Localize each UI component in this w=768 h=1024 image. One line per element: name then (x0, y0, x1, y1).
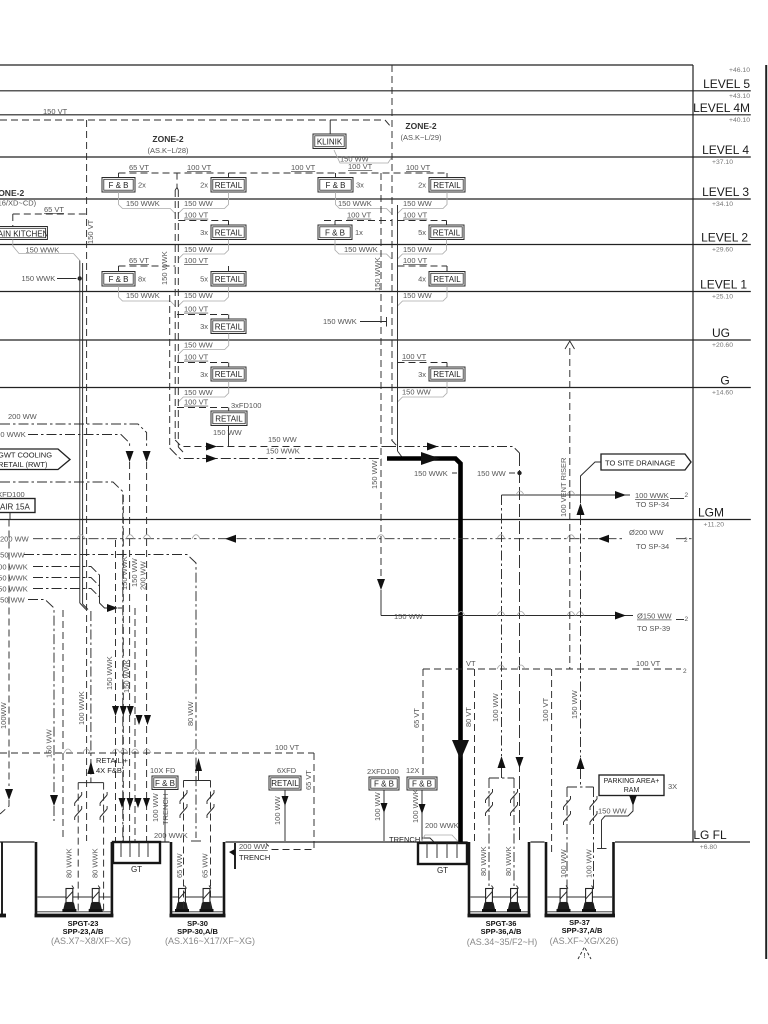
svg-text:RETAIL: RETAIL (215, 322, 243, 331)
svg-text:3x: 3x (200, 370, 208, 379)
svg-text:MAIN KITCHEN: MAIN KITCHEN (0, 230, 49, 239)
svg-text:65 WW: 65 WW (201, 852, 210, 878)
svg-text:+11.20: +11.20 (704, 522, 725, 529)
svg-text:SPP-36,A/B: SPP-36,A/B (481, 927, 522, 936)
svg-text:+14.60: +14.60 (712, 390, 733, 397)
svg-text:+34.10: +34.10 (712, 201, 733, 208)
svg-text:80 WWK: 80 WWK (65, 848, 74, 878)
svg-text:100 WWK: 100 WWK (411, 789, 420, 823)
svg-text:4X F&B: 4X F&B (96, 766, 122, 775)
svg-text:150 WWK: 150 WWK (126, 291, 160, 300)
svg-text:!: ! (583, 951, 585, 960)
svg-text:ZONE-2: ZONE-2 (152, 134, 183, 144)
bundle riser a (115, 540, 117, 842)
svg-text:100 VT: 100 VT (187, 163, 212, 172)
svg-text:100 VT: 100 VT (406, 163, 431, 172)
level line LEVEL 2 (0, 244, 751, 246)
box RETAIL row E (211, 367, 246, 381)
warning triangle (578, 947, 591, 959)
svg-text:LEVEL 3: LEVEL 3 (702, 185, 749, 199)
label 150 WW under row A (398, 192, 448, 214)
svg-text:150 WWK: 150 WWK (105, 656, 114, 690)
svg-text:(AS.K~L/28): (AS.K~L/28) (147, 146, 189, 155)
svg-text:100 VT: 100 VT (184, 211, 209, 220)
svg-text:150 WW: 150 WW (184, 341, 214, 350)
svg-text:F & B: F & B (412, 780, 432, 789)
svg-text:RETAIL +: RETAIL + (96, 756, 129, 765)
svg-text:150 WWK: 150 WWK (120, 556, 129, 590)
svg-text:F & B: F & B (325, 228, 345, 237)
svg-text:TRENCH: TRENCH (389, 835, 420, 844)
pit2 riser arrow (195, 758, 202, 771)
pit walls x467.5 (468, 842, 471, 916)
svg-text:2: 2 (684, 537, 688, 544)
svg-text:RETAIL (RWT): RETAIL (RWT) (0, 460, 48, 469)
svg-text:TO SP-39: TO SP-39 (637, 624, 670, 633)
box RETAIL row B x211 (211, 225, 246, 240)
svg-text:150 WW: 150 WW (0, 596, 26, 605)
pipe vent branch row C left (119, 265, 176, 267)
svg-text:100 VT: 100 VT (541, 697, 550, 722)
svg-text:100 WW: 100 WW (585, 848, 594, 878)
level line G (0, 387, 751, 389)
riser 65 VT dashed (422, 669, 424, 777)
svg-text:150 WW: 150 WW (394, 612, 424, 621)
svg-text:+20.60: +20.60 (712, 342, 733, 349)
svg-text:6XFD100: 6XFD100 (0, 490, 25, 499)
svg-text:RETAIL: RETAIL (215, 181, 243, 190)
svg-text:(AS.34~35/F2~H): (AS.34~35/F2~H) (467, 937, 538, 947)
label 150 WW level conn row E (178, 334, 228, 355)
svg-text:TO SP-34: TO SP-34 (636, 500, 669, 509)
pipe vent branch row F (177, 407, 229, 409)
svg-text:65 VT: 65 VT (44, 205, 64, 214)
svg-text:LEVEL 2: LEVEL 2 (701, 231, 748, 245)
pit2 discharge header (184, 780, 211, 782)
pipe vent branch row B mid (178, 220, 228, 222)
svg-text:150 WW: 150 WW (477, 469, 507, 478)
svg-text:150 WWK: 150 WWK (122, 659, 131, 693)
svg-text:+46.10: +46.10 (729, 67, 750, 74)
bundle riser c (134, 608, 136, 842)
svg-text:150 WWK: 150 WWK (414, 469, 448, 478)
box RETAIL row C x211 (211, 272, 246, 287)
svg-text:150 WW: 150 WW (268, 435, 298, 444)
svg-text:80 WWK: 80 WWK (91, 848, 100, 878)
pump at x489 (486, 889, 493, 903)
svg-text:150 WWK: 150 WWK (0, 585, 28, 594)
svg-text:100 VT: 100 VT (348, 162, 373, 171)
svg-text:100 VT: 100 VT (184, 256, 209, 265)
svg-text:Ø150 WW: Ø150 WW (637, 612, 673, 621)
label 150 WWK under row B (335, 240, 392, 260)
svg-text:+25.10: +25.10 (712, 294, 733, 301)
svg-text:+43.10: +43.10 (729, 93, 750, 100)
pipe vent branch row E (177, 362, 229, 364)
vent loop to trench (266, 753, 314, 850)
svg-text:+40.10: +40.10 (729, 117, 750, 124)
svg-text:150 WW: 150 WW (0, 551, 26, 560)
svg-text:RETAIL: RETAIL (215, 414, 243, 423)
svg-text:100 VT: 100 VT (184, 353, 209, 362)
svg-text:200 WW: 200 WW (139, 560, 148, 590)
svg-text:TRENCH: TRENCH (161, 794, 170, 825)
svg-text:100 VT: 100 VT (402, 352, 427, 361)
svg-text:12X: 12X (406, 766, 419, 775)
riser 100 WW pit3 discharge (501, 495, 503, 756)
pump at x514 (511, 889, 518, 903)
pit1 riser 100 WWK up (90, 611, 92, 783)
svg-text:LG FL: LG FL (693, 828, 727, 842)
svg-text:G: G (720, 374, 729, 388)
trench marker pit2 (234, 843, 236, 869)
level line LEVEL 5 (0, 90, 751, 92)
svg-text:RETAIL: RETAIL (433, 181, 461, 190)
riser 80 VT dashed (474, 669, 476, 841)
pipe vent branch row C right (398, 265, 448, 267)
svg-text:100 WWK: 100 WWK (77, 691, 86, 725)
svg-text:+29.60: +29.60 (712, 247, 733, 254)
pump at x206.5 (203, 889, 210, 903)
svg-text:100 WWK: 100 WWK (0, 563, 28, 572)
svg-text:3x: 3x (356, 181, 364, 190)
pump at x182 (179, 889, 186, 903)
arrow down riser 200 WW (143, 451, 151, 462)
pump at x563.5 (560, 889, 567, 903)
trio merge arrow (100, 575, 111, 608)
svg-text:GT: GT (437, 866, 448, 875)
svg-text:10X FD: 10X FD (150, 766, 176, 775)
level line LEVEL 1 (0, 291, 751, 293)
svg-text:(AS.X16/XD~CD): (AS.X16/XD~CD) (0, 199, 37, 208)
pit walls x169.5 (170, 842, 173, 916)
svg-text:150 WW: 150 WW (213, 428, 243, 437)
svg-text:F & B: F & B (325, 181, 345, 190)
pipe vent branch row A (119, 172, 448, 174)
svg-text:2XFD100: 2XFD100 (367, 767, 399, 776)
pipe 150 WWK dash-dot to pit3 (386, 447, 520, 454)
riser stack pair right dashed (391, 65, 393, 440)
svg-text:150 VT: 150 VT (86, 219, 95, 244)
pipe 100 WWK to SP-34 (502, 494, 631, 496)
svg-text:80 WWK: 80 WWK (504, 846, 513, 876)
svg-text:GWT COOLING: GWT COOLING (0, 451, 52, 460)
svg-text:ZONE-2: ZONE-2 (0, 188, 24, 198)
svg-text:150 WW: 150 WW (184, 388, 214, 397)
banner TO SITE DRAINAGE (601, 454, 691, 470)
box F & B row A x318 (318, 178, 353, 193)
riser 150 VT dashed left (86, 120, 88, 841)
pipe vent branch row B right (324, 220, 392, 222)
svg-text:RETAIL: RETAIL (215, 370, 243, 379)
svg-text:100 VT: 100 VT (403, 211, 428, 220)
svg-text:(AS.X7~X8/XF~XG): (AS.X7~X8/XF~XG) (51, 936, 131, 946)
svg-text:5x: 5x (200, 275, 208, 284)
pump at x95.7 (92, 889, 99, 903)
svg-text:3x: 3x (200, 322, 208, 331)
frame right edge (765, 65, 767, 959)
riser stack pair mid dashed (174, 190, 176, 440)
box RETAIL row D (211, 319, 246, 334)
box RETAIL row C x429 (429, 272, 465, 287)
vent riser 100 dashed (569, 348, 571, 669)
svg-text:LGM: LGM (698, 506, 724, 520)
banner GWT COOLING RETAIL (RWT) (0, 449, 70, 470)
svg-text:150 WW: 150 WW (403, 245, 433, 254)
level line LEVEL 4 (0, 156, 751, 158)
svg-text:100 VT: 100 VT (403, 256, 428, 265)
box GT grease trap 2 (418, 843, 467, 864)
svg-text:F & B: F & B (108, 275, 128, 284)
svg-text:SPP-30,A/B: SPP-30,A/B (177, 927, 218, 936)
label 150 WW level conn row F (178, 381, 228, 402)
svg-text:PARKING AREA+: PARKING AREA+ (604, 778, 660, 785)
svg-text:RETAIL: RETAIL (433, 370, 461, 379)
svg-text:65 VT: 65 VT (129, 163, 149, 172)
svg-text:SPP-37,A/B: SPP-37,A/B (562, 926, 603, 935)
label 150 WWK under row A (119, 192, 176, 214)
label 150 WWK under row C (119, 286, 176, 306)
svg-text:150 WW: 150 WW (598, 807, 628, 816)
svg-text:4x: 4x (418, 275, 426, 284)
label 150 WW under row B (398, 240, 447, 260)
svg-text:AIR 15A: AIR 15A (0, 503, 30, 512)
svg-text:3x: 3x (200, 228, 208, 237)
svg-text:100WW: 100WW (0, 701, 8, 729)
svg-text:150 WW: 150 WW (370, 459, 379, 489)
svg-text:LEVEL 1: LEVEL 1 (700, 278, 747, 292)
pit edge-left partial (1, 842, 3, 916)
svg-text:RETAIL: RETAIL (215, 228, 243, 237)
svg-text:150 WW: 150 WW (184, 199, 214, 208)
svg-text:150 WWK: 150 WWK (323, 317, 357, 326)
label 150 WW under row C (398, 286, 448, 306)
svg-text:100 VT: 100 VT (184, 398, 209, 407)
thick arrow right (421, 452, 440, 465)
svg-text:LEVEL 5: LEVEL 5 (703, 77, 750, 91)
svg-text:200 WWK: 200 WWK (425, 821, 459, 830)
svg-text:100 VT: 100 VT (347, 211, 372, 220)
svg-text:TRENCH: TRENCH (239, 853, 270, 862)
svg-text:65 VT: 65 VT (304, 770, 313, 790)
riser pair kitchen solid (79, 261, 81, 604)
bundle arrows lower (119, 798, 126, 808)
svg-text:150 VT: 150 VT (43, 107, 68, 116)
box F & B row A x102 (102, 178, 135, 193)
svg-text:100 WWK: 100 WWK (635, 491, 669, 500)
svg-text:200 WW: 200 WW (8, 412, 38, 421)
svg-text:150 WWK: 150 WWK (22, 274, 56, 283)
svg-text:(AS.K~L/29): (AS.K~L/29) (400, 133, 442, 142)
pipe vent branch row B kitchen (13, 213, 87, 215)
label 150 WWK under row A (336, 192, 392, 214)
pit3 discharge header (489, 777, 514, 779)
svg-text:TO SITE DRAINAGE: TO SITE DRAINAGE (605, 459, 675, 468)
pipe 100 VT right run (423, 668, 681, 670)
svg-text:RETAIL: RETAIL (433, 275, 461, 284)
label 150 WW under row B (178, 240, 228, 260)
pipe vent branch row E right (398, 362, 448, 364)
svg-text:150 WWK: 150 WWK (126, 199, 160, 208)
svg-text:VT: VT (466, 659, 476, 668)
svg-text:SPP-23,A/B: SPP-23,A/B (63, 927, 104, 936)
svg-text:F & B: F & B (108, 181, 128, 190)
pipe 150 WW to SP-39 (381, 615, 633, 617)
svg-text:(AS.XF~XG/X26): (AS.XF~XG/X26) (550, 936, 619, 946)
frame boundary vertical (692, 65, 694, 842)
svg-text:150 WWK: 150 WWK (344, 245, 378, 254)
svg-text:5x: 5x (418, 228, 426, 237)
bundle arrows upper (112, 706, 119, 716)
pipe vent branch row D (177, 314, 229, 316)
thick arrow down (452, 740, 469, 760)
svg-text:150 WWK: 150 WWK (338, 199, 372, 208)
pipe 200 WW to SP-34 dash-dot (33, 538, 624, 540)
svg-text:2x: 2x (418, 181, 426, 190)
box GT grease trap 1 (113, 842, 160, 863)
svg-text:200 WW: 200 WW (0, 535, 30, 544)
label 150 WW under row E right (398, 381, 448, 402)
svg-text:3xFD100: 3xFD100 (231, 401, 261, 410)
box AIR 15A (0, 499, 35, 513)
box RETAIL row F (211, 411, 247, 426)
svg-text:6XFD: 6XFD (277, 766, 297, 775)
svg-text:200 WW: 200 WW (239, 842, 269, 851)
svg-text:TO SP-34: TO SP-34 (636, 542, 669, 551)
pit1 discharge header (78, 782, 103, 784)
svg-text:200 WWK: 200 WWK (154, 831, 188, 840)
svg-text:100 VT: 100 VT (291, 163, 316, 172)
site drainage riser (581, 462, 602, 503)
svg-text:80 WW: 80 WW (186, 700, 195, 726)
level line UG (0, 339, 751, 341)
box RETAIL row A x211 (211, 178, 246, 193)
svg-text:RETAIL: RETAIL (433, 228, 461, 237)
svg-text:UG: UG (712, 326, 730, 340)
svg-text:1x: 1x (355, 228, 363, 237)
svg-text:80 VT: 80 VT (464, 707, 473, 727)
svg-text:150 WWK: 150 WWK (0, 430, 26, 439)
riser 100WW far left (8, 520, 10, 787)
svg-text:F & B: F & B (155, 779, 175, 788)
box KLINIK (329, 120, 331, 134)
svg-text:GT: GT (131, 865, 142, 874)
svg-text:2: 2 (685, 492, 689, 499)
svg-text:150 WW: 150 WW (402, 388, 432, 397)
svg-text:150 WW: 150 WW (184, 291, 214, 300)
parking drain (632, 796, 634, 798)
svg-text:150 WW: 150 WW (570, 689, 579, 719)
label 150 WW under row A (178, 192, 228, 214)
svg-text:100 VT: 100 VT (184, 305, 209, 314)
label 150 WW under row C (178, 286, 228, 306)
arrow down pit3 inlet (516, 757, 524, 768)
svg-text:65 WW: 65 WW (175, 852, 184, 878)
svg-text:100 WW: 100 WW (373, 791, 382, 821)
level line LG FL (0, 841, 35, 843)
svg-text:KLINIK: KLINIK (317, 137, 343, 146)
svg-text:150 WW: 150 WW (403, 199, 433, 208)
svg-text:RAM: RAM (624, 787, 640, 794)
svg-text:+6.80: +6.80 (700, 844, 717, 851)
arrow down riser 150 WWK (126, 451, 134, 462)
svg-text:100 VENT RISER: 100 VENT RISER (559, 457, 568, 517)
level line LEVEL 3 (0, 198, 751, 200)
svg-text:150 WWK: 150 WWK (160, 251, 169, 285)
svg-text:(AS.X16~X17/XF~XG): (AS.X16~X17/XF~XG) (165, 936, 255, 946)
svg-text:65 VT: 65 VT (129, 256, 149, 265)
pit4 discharge header (567, 786, 594, 788)
svg-text:150 WW: 150 WW (184, 245, 214, 254)
level line LEVEL 4M (0, 114, 751, 116)
box RETAIL row A x429 (429, 178, 465, 193)
svg-text:2: 2 (683, 668, 687, 675)
pump at x589 (586, 889, 593, 903)
svg-text:2x: 2x (138, 181, 146, 190)
svg-text:100 WW: 100 WW (151, 792, 160, 822)
svg-text:2: 2 (685, 616, 689, 623)
stack merge 45s (392, 440, 398, 447)
level line roof +46.10 (0, 64, 693, 66)
svg-text:RETAIL: RETAIL (271, 779, 299, 788)
pipe 150 VT horizontal main (0, 119, 385, 121)
svg-text:3X: 3X (668, 782, 677, 791)
svg-text:LEVEL 4: LEVEL 4 (702, 143, 749, 157)
pipe 150 WWK feeder dash-dot (170, 448, 382, 459)
svg-text:150 WW: 150 WW (403, 291, 433, 300)
box F & B row C x102 (102, 272, 135, 287)
svg-text:100 WW: 100 WW (273, 795, 282, 825)
svg-text:8x: 8x (138, 275, 146, 284)
svg-text:150 WW: 150 WW (45, 728, 54, 758)
box RETAIL row E right (429, 367, 465, 381)
riser 100 VT pit4 (551, 669, 553, 854)
svg-text:100 WW: 100 WW (491, 692, 500, 722)
svg-text:100 VT: 100 VT (275, 743, 300, 752)
pit walls x34.5 (35, 842, 38, 916)
svg-text:100 VT: 100 VT (636, 659, 661, 668)
svg-text:65 VT: 65 VT (412, 708, 421, 728)
box MAIN KITCHEN (0, 227, 47, 240)
svg-text:80 WWK: 80 WWK (479, 846, 488, 876)
svg-text:150 WWK: 150 WWK (266, 447, 300, 456)
pipe GWT RWT dash-dot (0, 482, 123, 842)
svg-text:2x: 2x (200, 181, 208, 190)
svg-text:150 WWK: 150 WWK (0, 574, 28, 583)
bundle riser b (122, 495, 124, 842)
svg-text:F & B: F & B (374, 780, 394, 789)
THICK main 150 WWK pipe (387, 459, 461, 844)
riser 150 WW dashed center (380, 173, 382, 577)
box F & B row B x318 (318, 225, 352, 240)
level line LGM (0, 519, 751, 521)
svg-text:LEVEL 4M: LEVEL 4M (693, 101, 750, 115)
svg-text:3x: 3x (418, 370, 426, 379)
box RETAIL row B x429 (429, 225, 464, 240)
pit walls x544.5 (545, 842, 548, 916)
svg-text:ZONE-2: ZONE-2 (405, 121, 436, 131)
svg-text:+37.10: +37.10 (712, 159, 733, 166)
pipe 150 WW horizontal LGM-upper (175, 440, 386, 447)
box PARKING AREA+ RAM (599, 775, 664, 796)
pipe 100 VT horizontal lower (0, 752, 314, 754)
svg-text:Ø200 WW: Ø200 WW (629, 528, 665, 537)
pump at x69.4 (66, 889, 73, 903)
svg-text:RETAIL: RETAIL (215, 275, 243, 284)
